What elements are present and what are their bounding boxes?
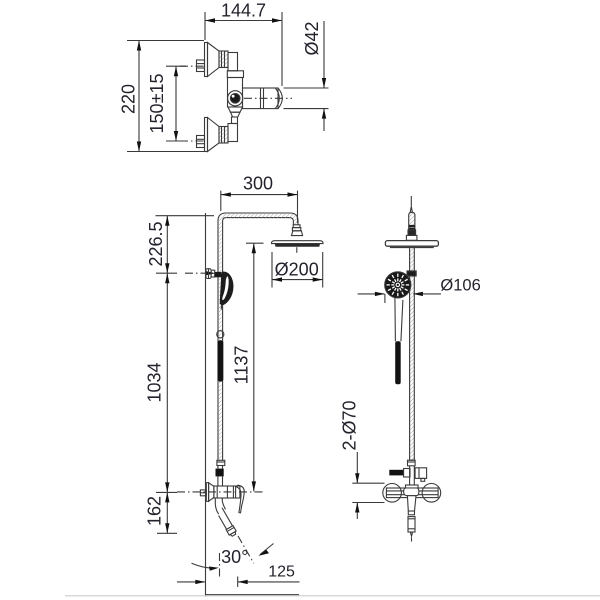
rain head side — [385, 241, 438, 248]
top connector — [228, 53, 238, 71]
valve hex front — [200, 490, 206, 496]
spout end side — [408, 517, 415, 542]
escutcheon circle right — [422, 484, 441, 503]
valve cross bar side — [386, 488, 438, 498]
top escutcheon plate — [205, 43, 208, 77]
dim 2-Ø70 — [352, 452, 384, 519]
svg-text:Ø106: Ø106 — [440, 277, 480, 295]
top threads — [219, 51, 228, 68]
floor line — [206, 594, 300, 596]
arm hatch — [219, 214, 297, 461]
slider knob — [206, 269, 215, 279]
svg-text:300: 300 — [243, 174, 273, 194]
dark hose section — [218, 340, 224, 381]
svg-text:30°: 30° — [221, 547, 248, 567]
handle under body — [228, 107, 243, 112]
ball joint rings side — [408, 230, 416, 236]
dim 150±15 line — [166, 66, 186, 141]
bottom escutcheon plate — [205, 118, 208, 152]
svg-text:144.7: 144.7 — [221, 1, 266, 21]
30° arc — [192, 563, 219, 571]
bottom inlet hex nut — [197, 136, 205, 148]
escutcheon circle left — [383, 484, 402, 503]
head center stub — [296, 247, 298, 253]
30° leader arrow — [258, 544, 273, 556]
arm tip stub — [410, 206, 412, 212]
slider leader arrow — [185, 271, 216, 275]
outlet centerline — [244, 97, 292, 99]
dim 144.7 line — [205, 12, 282, 86]
svg-text:2-Ø70: 2-Ø70 — [340, 400, 360, 450]
valve connector nut side — [408, 460, 416, 466]
top inlet hex nut — [197, 60, 205, 72]
valve top nut (front) — [217, 460, 225, 465]
svg-text:1137: 1137 — [232, 346, 252, 385]
svg-text:220: 220 — [119, 84, 139, 114]
bottom link — [232, 117, 238, 124]
svg-text:162: 162 — [145, 496, 165, 526]
valve body — [228, 78, 243, 108]
svg-text:226.5: 226.5 — [146, 221, 166, 266]
slider clamp dark — [215, 272, 222, 277]
30° slant axis dash — [238, 536, 254, 563]
spout angled — [216, 507, 238, 537]
svg-text:125: 125 — [268, 564, 295, 581]
dim Ø200 — [272, 252, 323, 288]
diverter stem — [404, 469, 410, 478]
arm tip wire — [410, 196, 412, 206]
dim 226.5 — [156, 216, 215, 274]
bottom escutcheon cone — [208, 118, 220, 152]
faint page line — [65, 595, 600, 597]
shower arm outer — [218, 213, 298, 461]
hand shower face — [385, 272, 411, 298]
ball joint — [291, 225, 302, 236]
valve dark band (front) — [216, 469, 224, 477]
30° vertical axis dash — [219, 553, 221, 578]
svg-text:Ø42: Ø42 — [302, 21, 322, 55]
dim 1137 — [246, 243, 264, 491]
valve escutcheon front — [206, 483, 208, 502]
svg-text:Ø200: Ø200 — [275, 260, 319, 280]
bottom connector — [228, 124, 238, 142]
cartridge circle — [228, 91, 243, 106]
riser pipe side — [410, 247, 415, 485]
top inlet centerline — [180, 65, 205, 67]
dim 300 — [221, 191, 298, 223]
dim 1034 — [156, 273, 177, 492]
hand shower handle side — [395, 298, 403, 342]
valve centerline front — [177, 491, 264, 493]
body collar — [227, 71, 243, 78]
top escutcheon cone — [208, 43, 220, 77]
outlet spout cylinder — [243, 88, 283, 109]
hand shower handle dark — [395, 341, 401, 384]
dim 220 line — [127, 41, 204, 152]
dim 125 — [177, 577, 300, 588]
bottom inlet centerline — [180, 140, 205, 142]
valve body side — [404, 485, 419, 515]
valve body front — [214, 486, 240, 498]
bottom threads — [219, 127, 228, 144]
svg-text:1034: 1034 — [145, 362, 165, 402]
hose knob — [217, 331, 224, 338]
spout upper — [215, 498, 225, 514]
dim Ø42 — [284, 21, 329, 131]
diverter knob black — [389, 470, 403, 476]
svg-text:150±15: 150±15 — [147, 74, 167, 134]
dim 162 — [156, 492, 177, 533]
pipe seg above band — [218, 466, 223, 487]
head collar side — [406, 235, 417, 240]
outlet elbow side — [415, 468, 427, 482]
hand shower front — [220, 272, 234, 310]
shower arm inner — [223, 218, 294, 461]
rain shower head front — [272, 241, 324, 247]
arm end cylinder — [409, 212, 415, 230]
dim Ø106 — [358, 292, 441, 303]
valve handle front — [237, 485, 245, 513]
wall line — [205, 213, 207, 597]
slider clamp side — [407, 271, 416, 276]
